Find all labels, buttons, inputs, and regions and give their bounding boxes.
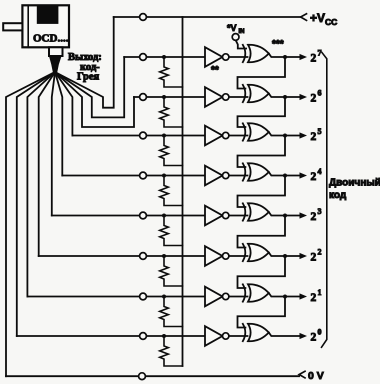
svg-text:0 V: 0 V [308, 370, 324, 382]
wire feedback bit 4 to XOR bit 3 [238, 176, 286, 208]
wire gray bit 7 wire [55, 57, 124, 117]
label Vyhod kod-Greya [68, 52, 102, 83]
label 2^0 [311, 328, 322, 344]
node terminal on 0 V rail [139, 373, 146, 380]
inverter bit 6 [205, 87, 229, 107]
node input terminal bit 4 [140, 172, 147, 179]
XOR gate bit 2 [243, 244, 269, 261]
output arrow bit 7 [300, 54, 308, 60]
resistor pull-up bit 7 [160, 57, 183, 87]
label +Vcc [310, 11, 337, 27]
resistor pull-up bit 2 [160, 256, 183, 286]
wire gray bit 4 wire [55, 72, 62, 176]
inverter bit 4 [205, 166, 229, 186]
+Vcc rail wire [114, 16, 301, 18]
wire +Vcc supply wire [55, 17, 114, 108]
wire gray-code line bit 0 [17, 335, 206, 337]
wire gray-code line bit 6 [134, 96, 206, 98]
wire *Vin to XOR bit 7 [236, 40, 246, 48]
annotation *** at XOR bit 7 [272, 39, 284, 50]
resistor pull-up bit 4 [160, 176, 183, 206]
wire gray bit 5 wire [55, 72, 72, 136]
0 V rail wire [6, 375, 299, 377]
XOR gate bit 5 [243, 123, 269, 140]
wire inverter output to XOR bit 4 [229, 175, 248, 177]
svg-text:OCD....: OCD.... [33, 33, 69, 45]
inverter bit 3 [205, 206, 229, 226]
svg-text:5: 5 [318, 127, 322, 136]
node input terminal bit 2 [140, 253, 147, 260]
encoder connector [49, 47, 63, 56]
wire gray-code line bit 1 [27, 296, 206, 298]
label 2^2 [311, 248, 322, 264]
node input terminal bit 5 [140, 132, 147, 139]
wire XOR output bit 4 [269, 172, 301, 176]
annotation ** at inverter bit 7 [211, 65, 219, 76]
svg-text:IN: IN [239, 29, 245, 35]
encoder OCD body [22, 5, 69, 47]
junction resistor top bit 2 [162, 254, 166, 258]
wire XOR output bit 1 [269, 293, 301, 297]
resistor pull-up bit 3 [160, 216, 183, 246]
inverter bit 7 [205, 47, 229, 67]
node input terminal bit 7 [140, 54, 147, 61]
XOR gate bit 1 [243, 284, 269, 301]
svg-text:2: 2 [311, 131, 317, 143]
inverter bit 5 [205, 126, 229, 146]
svg-text:2: 2 [318, 248, 322, 257]
svg-text:2: 2 [311, 93, 317, 105]
junction resistor top bit 1 [162, 295, 166, 299]
wire feedback bit 1 to XOR bit 0 [238, 297, 286, 328]
wire gray-code line bit 4 [62, 175, 206, 177]
svg-text:Грея: Грея [77, 72, 100, 83]
svg-text:1: 1 [318, 288, 322, 297]
XOR gate bit 6 [243, 85, 269, 102]
svg-text:7: 7 [318, 49, 322, 58]
output arrow bit 1 [300, 293, 308, 299]
svg-text:*V: *V [227, 23, 237, 33]
label 0 V [308, 370, 324, 382]
wire feedback bit 2 to XOR bit 1 [238, 256, 286, 288]
svg-text:3: 3 [318, 207, 322, 216]
wire feedback bit 5 to XOR bit 4 [238, 136, 286, 168]
wire gray-code line bit 7 [124, 56, 206, 58]
node input terminal bit 6 [140, 94, 147, 101]
svg-text:4: 4 [318, 167, 322, 176]
output arrow bit 0 [300, 333, 308, 339]
wire gray bit 3 wire [52, 72, 55, 216]
wire +Vcc pull-up bus [182, 17, 184, 366]
svg-text:2: 2 [311, 53, 317, 65]
XOR gate bit 7 [243, 45, 269, 62]
junction resistor top bit 7 [162, 55, 166, 59]
binary outputs brace [322, 52, 327, 347]
svg-text:***: *** [272, 39, 284, 50]
svg-text:CC: CC [325, 17, 337, 27]
wire XOR output bit 7 [269, 54, 301, 58]
wire feedback bit 3 to XOR bit 2 [238, 216, 286, 248]
resistor pull-up bit 5 [160, 136, 183, 166]
svg-text:2: 2 [311, 171, 317, 183]
junction output node bit 5 [283, 134, 287, 138]
label Dvoichnyi kod [329, 178, 380, 202]
resistor pull-up bit 0 [160, 336, 183, 366]
label 2^3 [311, 207, 322, 223]
wire XOR output bit 5 [269, 132, 301, 136]
svg-text:2: 2 [311, 332, 317, 344]
inverter bit 0 [205, 326, 229, 346]
encoder label OCD.... [33, 33, 69, 45]
junction resistor top bit 5 [162, 134, 166, 138]
label 2^4 [311, 167, 322, 183]
wire gray-code line bit 5 [72, 135, 206, 137]
junction resistor top bit 3 [162, 214, 166, 218]
inverter bit 2 [205, 246, 229, 266]
output arrow bit 6 [300, 94, 308, 100]
label *Vin [227, 23, 245, 35]
wire gray bit 2 wire [39, 72, 55, 256]
wire gray-code line bit 3 [52, 215, 206, 217]
0 V off-page arrowhead [299, 371, 305, 378]
junction resistor top bit 6 [162, 95, 166, 99]
wire gray bit 1 wire [27, 72, 55, 297]
wire inverter output to XOR bit 0 [229, 335, 248, 337]
junction output node bit 2 [283, 254, 287, 258]
wire inverter output to XOR bit 5 [229, 135, 248, 137]
wire inverter output to XOR bit 7 [229, 56, 248, 58]
node input terminal bit 1 [140, 293, 147, 300]
wire gray-code line bit 2 [39, 255, 206, 257]
svg-text:2: 2 [311, 292, 317, 304]
node input terminal bit 0 [140, 333, 147, 340]
node input terminal bit 3 [140, 212, 147, 219]
label 2^5 [311, 127, 322, 143]
label 2^1 [311, 288, 322, 304]
inverter bit 1 [205, 287, 229, 307]
wire inverter output to XOR bit 6 [229, 96, 248, 98]
+Vcc off-page arrowhead [301, 14, 307, 21]
output arrow bit 3 [300, 212, 308, 218]
svg-text:код: код [329, 190, 347, 201]
junction output node bit 1 [283, 295, 287, 299]
wire gray bit 0 wire [17, 72, 55, 336]
XOR gate bit 3 [243, 203, 269, 220]
wire XOR output bit 0 [269, 333, 301, 337]
svg-text:2: 2 [311, 211, 317, 223]
node *Vin terminal [232, 34, 239, 41]
wire gray bit 6 wire [55, 72, 134, 127]
output arrow bit 2 [300, 253, 308, 259]
resistor pull-up bit 1 [160, 297, 183, 327]
XOR gate bit 0 [243, 324, 269, 341]
svg-text:6: 6 [318, 89, 322, 98]
junction output node bit 6 [283, 95, 287, 99]
wire feedback bit 7 to XOR bit 6 [238, 57, 286, 89]
encoder shaft [3, 23, 22, 30]
node terminal on +Vcc rail [140, 14, 147, 21]
wire 0 V common wire [6, 72, 55, 376]
junction output node bit 7 [283, 55, 287, 59]
wire inverter output to XOR bit 2 [229, 255, 248, 257]
wire feedback bit 6 to XOR bit 5 [238, 97, 286, 127]
junction resistor top bit 4 [162, 174, 166, 178]
label 2^7 [311, 49, 322, 65]
label 2^6 [311, 89, 322, 105]
wire inverter output to XOR bit 3 [229, 215, 248, 217]
wire XOR output bit 2 [269, 253, 301, 257]
junction output node bit 3 [283, 214, 287, 218]
svg-text:**: ** [211, 65, 219, 76]
svg-text:+V: +V [310, 11, 325, 25]
wire XOR output bit 3 [269, 212, 301, 216]
junction output node bit 4 [283, 174, 287, 178]
resistor pull-up bit 6 [160, 97, 183, 127]
wire XOR output bit 6 [269, 94, 301, 98]
svg-text:2: 2 [311, 252, 317, 264]
output arrow bit 4 [300, 172, 308, 178]
XOR gate bit 4 [243, 163, 269, 180]
junction resistor top bit 0 [162, 334, 166, 338]
wire inverter output to XOR bit 1 [229, 296, 248, 298]
svg-text:Двоичный: Двоичный [329, 178, 380, 189]
svg-text:0: 0 [318, 328, 322, 337]
encoder cable bundle [50, 56, 62, 72]
output arrow bit 5 [300, 132, 308, 138]
